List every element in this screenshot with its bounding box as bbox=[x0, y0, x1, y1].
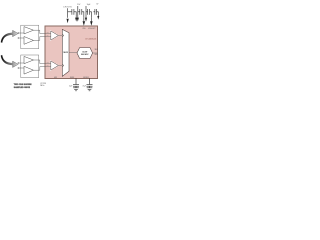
svg-text:TWO CHS SHOWN: TWO CHS SHOWN bbox=[14, 84, 32, 86]
svg-text:47µF: 47µF bbox=[82, 85, 85, 87]
svg-text:VDDLBYP: VDDLBYP bbox=[88, 28, 95, 30]
svg-text:REFIN: REFIN bbox=[70, 77, 74, 79]
svg-text:IN7−: IN7− bbox=[47, 65, 50, 67]
svg-text:SAR ADC: SAR ADC bbox=[81, 53, 89, 56]
svg-text:LTC2358-16: LTC2358-16 bbox=[85, 39, 97, 41]
svg-text:10µF: 10µF bbox=[87, 4, 91, 6]
svg-text:SDO: SDO bbox=[95, 49, 99, 51]
svg-text:2.5V: 2.5V bbox=[77, 4, 81, 6]
svg-text:IN0−: IN0− bbox=[47, 35, 50, 37]
svg-text:1.8V TO 5V: 1.8V TO 5V bbox=[63, 6, 72, 8]
svg-text:LTC2358: LTC2358 bbox=[40, 83, 46, 85]
svg-text:IN0+: IN0+ bbox=[47, 32, 50, 34]
svg-text:REFBUF: REFBUF bbox=[83, 77, 89, 79]
svg-text:MUX: MUX bbox=[63, 52, 68, 54]
svg-text:GND: GND bbox=[54, 77, 57, 79]
svg-text:SAMPLED ONCE: SAMPLED ONCE bbox=[14, 86, 31, 89]
svg-text:IN7+: IN7+ bbox=[47, 62, 50, 64]
svg-text:SCK: SCK bbox=[95, 54, 98, 56]
svg-text:10µF: 10µF bbox=[69, 85, 72, 87]
svg-text:5V: 5V bbox=[96, 3, 99, 5]
